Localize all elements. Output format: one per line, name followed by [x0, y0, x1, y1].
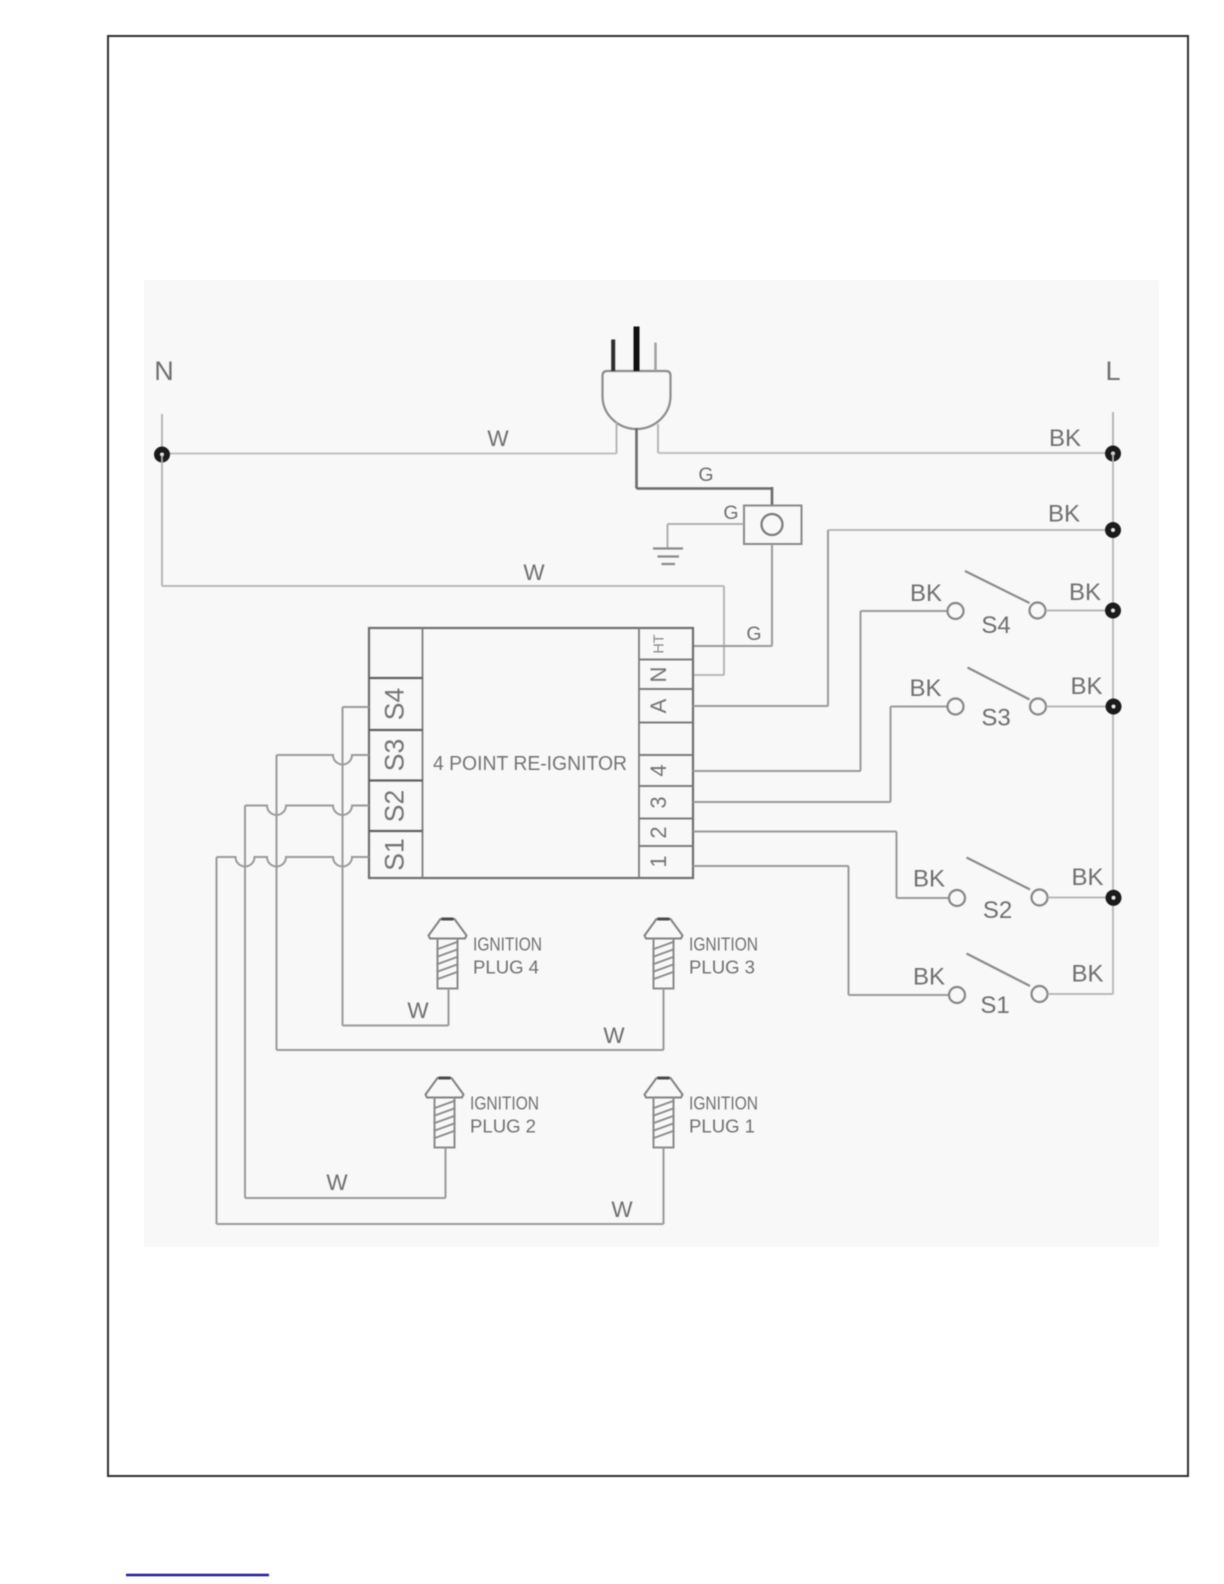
svg-text:BK: BK [1069, 579, 1101, 606]
wire [1048, 897, 1114, 899]
wire [849, 994, 950, 996]
pin A [646, 698, 671, 713]
svg-text:W: W [611, 1197, 633, 1222]
spark module [744, 506, 802, 545]
wire [343, 706, 370, 708]
svg-text:BK: BK [1071, 961, 1103, 988]
label W [407, 998, 429, 1023]
svg-text:S2: S2 [983, 897, 1012, 924]
wire [161, 455, 163, 586]
wire [693, 705, 828, 707]
svg-text:W: W [407, 998, 429, 1023]
wire [162, 585, 724, 587]
label IGNITION PLUG 2 [470, 1093, 539, 1137]
wire [828, 529, 1113, 531]
junction [154, 447, 170, 463]
label BK [1069, 579, 1101, 606]
wire [244, 806, 246, 1199]
svg-text:BK: BK [913, 866, 945, 893]
wire [693, 865, 849, 867]
svg-text:BK: BK [913, 964, 945, 991]
svg-text:W: W [523, 560, 545, 585]
ignition plug 2 [426, 1078, 464, 1148]
svg-text:PLUG 3: PLUG 3 [689, 957, 755, 978]
wire [1046, 706, 1113, 708]
wire [658, 452, 1113, 454]
wire [663, 1148, 665, 1225]
pin HT [652, 634, 668, 653]
wire [216, 857, 218, 1224]
wire [657, 424, 659, 453]
switch S4 [948, 571, 1046, 619]
wire [1046, 610, 1114, 612]
wire [245, 806, 369, 816]
wire [827, 530, 829, 706]
wire [861, 610, 948, 612]
label G [698, 464, 713, 486]
wire [245, 1197, 446, 1199]
svg-text:IGNITION: IGNITION [689, 1093, 758, 1114]
switch S1 [949, 954, 1048, 1004]
pin S1 [380, 838, 410, 870]
pin 3 [646, 796, 671, 808]
wire [161, 414, 163, 455]
svg-text:S2: S2 [380, 790, 410, 822]
svg-text:W: W [603, 1023, 625, 1048]
wire [343, 1025, 449, 1027]
wire [217, 857, 370, 867]
svg-text:S1: S1 [980, 992, 1009, 1019]
ignition plug 1 [645, 1078, 683, 1148]
svg-text:N: N [154, 356, 174, 386]
wire [277, 1049, 664, 1051]
svg-text:S3: S3 [380, 739, 410, 771]
svg-text:BK: BK [910, 580, 942, 607]
wire [635, 428, 638, 489]
svg-text:PLUG 4: PLUG 4 [473, 957, 539, 978]
label BK [910, 580, 942, 607]
svg-text:W: W [326, 1170, 348, 1195]
node L [1105, 356, 1120, 386]
label S2 [983, 897, 1012, 924]
wire [276, 755, 278, 1050]
svg-text:BK: BK [909, 675, 941, 702]
switch S3 [948, 668, 1047, 715]
pin 2 [646, 826, 671, 838]
wire [1112, 412, 1114, 453]
label S4 [981, 612, 1010, 639]
svg-text:BK: BK [1048, 501, 1080, 528]
wire [896, 832, 898, 899]
pin N [646, 667, 671, 683]
svg-text:PLUG 2: PLUG 2 [470, 1116, 536, 1137]
label BK [1071, 864, 1103, 891]
junction [1105, 522, 1121, 538]
label W [487, 426, 509, 451]
svg-text:A: A [646, 698, 671, 713]
pin S4 [380, 688, 410, 720]
wire [277, 755, 370, 765]
wire [1048, 993, 1114, 995]
svg-text:HT: HT [652, 634, 668, 653]
wire [217, 1223, 664, 1225]
svg-text:S4: S4 [981, 612, 1010, 639]
wire [848, 866, 850, 995]
label BK [909, 675, 941, 702]
label G [723, 502, 738, 524]
wire [860, 611, 862, 771]
label G [746, 623, 761, 645]
junction [1105, 446, 1121, 462]
svg-text:G: G [723, 502, 738, 524]
svg-text:BK: BK [1071, 864, 1103, 891]
wire [693, 831, 897, 833]
wire [693, 801, 891, 803]
wire [1112, 453, 1114, 994]
svg-text:L: L [1105, 356, 1120, 386]
label W [523, 560, 545, 585]
label BK [1071, 961, 1103, 988]
svg-text:1: 1 [646, 855, 671, 867]
pin 4 [646, 764, 671, 776]
label IGNITION PLUG 1 [689, 1093, 758, 1137]
junction [1105, 603, 1121, 619]
ground [653, 549, 683, 565]
svg-text:4: 4 [646, 764, 671, 776]
label W [603, 1023, 625, 1048]
svg-text:BK: BK [1049, 425, 1081, 452]
svg-text:G: G [746, 623, 761, 645]
svg-text:IGNITION: IGNITION [689, 934, 758, 955]
wire [445, 1148, 447, 1199]
label W [611, 1197, 633, 1222]
svg-text:N: N [646, 667, 671, 683]
ignition plug 3 [645, 919, 683, 989]
wire [667, 524, 669, 548]
wire [693, 645, 772, 647]
wire [448, 989, 450, 1026]
label S1 [980, 992, 1009, 1019]
re-ignitor module U1 [369, 628, 693, 878]
wire [616, 422, 618, 454]
label W [326, 1170, 348, 1195]
svg-text:PLUG 1: PLUG 1 [689, 1116, 755, 1137]
wire [162, 453, 617, 455]
label IGNITION PLUG 4 [473, 934, 542, 978]
wire [663, 989, 665, 1051]
svg-text:S3: S3 [981, 705, 1010, 732]
label BK [1048, 501, 1080, 528]
wire [891, 706, 948, 708]
pin S2 [380, 790, 410, 822]
label BK [1070, 673, 1102, 700]
svg-text:S4: S4 [380, 688, 410, 720]
svg-text:W: W [487, 426, 509, 451]
label IGNITION PLUG 3 [689, 934, 758, 978]
wire [668, 523, 745, 525]
node N [154, 356, 174, 386]
svg-text:IGNITION: IGNITION [473, 934, 542, 955]
label BK [1049, 425, 1081, 452]
wire [637, 487, 773, 490]
ignition plug 4 [429, 919, 467, 989]
wire [771, 544, 773, 646]
label 4 POINT RE-IGNITOR [433, 753, 627, 775]
label BK [913, 964, 945, 991]
svg-text:S1: S1 [380, 838, 410, 870]
pin S3 [380, 739, 410, 771]
svg-text:IGNITION: IGNITION [470, 1093, 539, 1114]
wire [771, 487, 774, 506]
power plug [603, 327, 671, 430]
wire [693, 674, 724, 676]
wire [897, 897, 950, 899]
label BK [913, 866, 945, 893]
svg-text:G: G [698, 464, 713, 486]
switch S2 [949, 858, 1048, 907]
wire [890, 707, 892, 803]
svg-text:4 POINT RE-IGNITOR: 4 POINT RE-IGNITOR [433, 753, 627, 775]
wire [342, 707, 344, 1026]
junction [1106, 890, 1122, 906]
wire [723, 586, 725, 675]
svg-text:BK: BK [1070, 673, 1102, 700]
pin 1 [646, 855, 671, 867]
junction [1106, 699, 1122, 715]
svg-text:3: 3 [646, 796, 671, 808]
label S3 [981, 705, 1010, 732]
svg-text:2: 2 [646, 826, 671, 838]
wire [693, 770, 861, 772]
